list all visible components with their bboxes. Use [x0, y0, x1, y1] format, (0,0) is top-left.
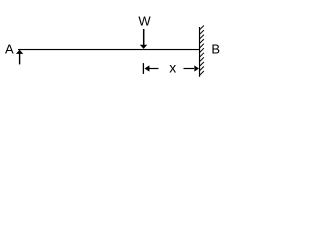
svg-text:B: B: [211, 42, 220, 57]
svg-text:W: W: [138, 14, 151, 29]
svg-text:A: A: [5, 42, 14, 57]
svg-text:x: x: [169, 60, 176, 76]
